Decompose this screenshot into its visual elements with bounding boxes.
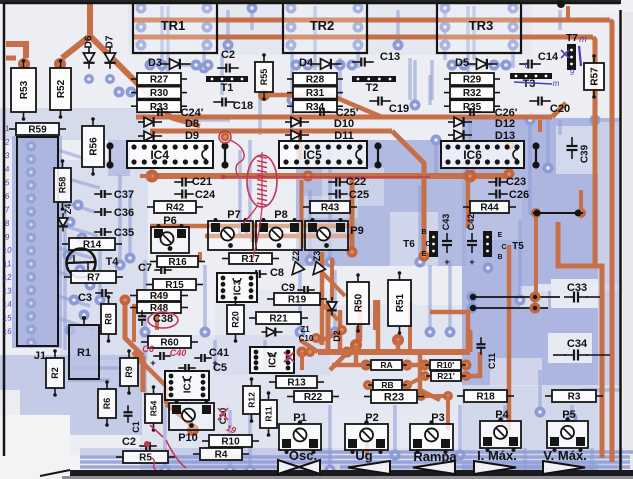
svg-text:R1: R1 [77, 347, 91, 359]
svg-text:C8: C8 [270, 267, 284, 279]
svg-text:R20: R20 [231, 311, 241, 328]
svg-text:R52: R52 [56, 79, 67, 98]
svg-text:C33: C33 [567, 282, 587, 294]
svg-text:C41: C41 [209, 347, 229, 359]
svg-text:C36: C36 [114, 207, 134, 219]
svg-text:D7: D7 [105, 35, 116, 48]
svg-text:R28: R28 [306, 75, 325, 86]
svg-text:T5: T5 [512, 241, 524, 252]
svg-text:T4: T4 [106, 256, 120, 268]
svg-text:P7: P7 [227, 209, 240, 221]
svg-text:Ug: Ug [355, 448, 372, 463]
svg-text:16: 16 [2, 327, 13, 337]
svg-text:B: B [497, 254, 502, 261]
svg-text:R56: R56 [89, 137, 100, 156]
svg-text:C5: C5 [213, 362, 227, 374]
svg-text:R44: R44 [480, 203, 499, 214]
svg-text:D4: D4 [299, 57, 314, 69]
svg-text:R59: R59 [28, 125, 47, 136]
svg-text:R60: R60 [160, 338, 179, 349]
svg-text:R32: R32 [463, 88, 482, 99]
svg-text:R3: R3 [568, 392, 581, 403]
svg-text:C22: C22 [346, 176, 366, 188]
svg-text:E: E [422, 251, 427, 258]
svg-text:IC6: IC6 [463, 148, 482, 162]
svg-text:R49: R49 [150, 291, 169, 302]
svg-text:C37: C37 [114, 189, 134, 201]
svg-text:D5: D5 [455, 57, 469, 69]
svg-text:14: 14 [2, 300, 13, 310]
svg-text:D2: D2 [332, 330, 342, 342]
svg-text:TR1: TR1 [161, 18, 186, 33]
svg-text:C26: C26 [509, 189, 529, 201]
svg-text:R31: R31 [306, 88, 325, 99]
svg-text:R21': R21' [437, 371, 455, 381]
svg-text:R51: R51 [395, 293, 406, 312]
svg-text:R10: R10 [221, 437, 240, 448]
svg-text:I. Máx.: I. Máx. [477, 448, 517, 463]
svg-text:C18: C18 [233, 100, 253, 112]
svg-text:R12: R12 [247, 392, 257, 408]
svg-text:m: m [553, 79, 560, 88]
svg-text:R29: R29 [463, 75, 482, 86]
svg-text:TR3: TR3 [469, 18, 494, 33]
svg-text:R50: R50 [354, 293, 365, 312]
svg-text:R8: R8 [104, 313, 114, 325]
svg-text:12: 12 [2, 272, 13, 282]
svg-text:R34: R34 [306, 102, 325, 113]
svg-text:C2: C2 [122, 436, 136, 448]
svg-text:C: C [501, 244, 506, 251]
svg-text:R27: R27 [150, 75, 169, 86]
svg-text:R21: R21 [269, 314, 288, 325]
svg-text:R10': R10' [437, 360, 455, 370]
svg-text:R54: R54 [149, 400, 159, 416]
svg-text:9: 9 [570, 68, 575, 77]
svg-text:D6: D6 [84, 35, 95, 48]
svg-text:C20: C20 [550, 103, 570, 115]
svg-text:R57: R57 [590, 67, 601, 86]
svg-text:C2: C2 [221, 49, 235, 61]
svg-text:Osc.: Osc. [289, 448, 317, 463]
svg-text:E: E [498, 232, 503, 239]
svg-text:C35: C35 [114, 227, 134, 239]
svg-text:10: 10 [2, 245, 13, 255]
svg-text:C39: C39 [580, 144, 591, 163]
svg-text:R19: R19 [288, 295, 307, 306]
svg-text:R11: R11 [264, 406, 274, 421]
svg-text:R58: R58 [58, 177, 68, 194]
svg-text:RA: RA [380, 360, 392, 370]
svg-text:R9: R9 [124, 366, 134, 378]
svg-text:R30: R30 [150, 88, 169, 99]
svg-text:T1: T1 [221, 82, 234, 94]
svg-text:6: 6 [525, 61, 530, 70]
svg-text:+: + [150, 358, 155, 368]
svg-text:C1: C1 [131, 421, 141, 433]
svg-text:IC4: IC4 [150, 148, 169, 162]
svg-text:T3: T3 [523, 78, 536, 90]
svg-text:R5: R5 [139, 453, 152, 464]
svg-text:13: 13 [2, 286, 13, 296]
svg-text:R16: R16 [168, 257, 187, 268]
svg-text:V. Máx.: V. Máx. [543, 448, 587, 463]
svg-text:C24: C24 [195, 189, 216, 201]
svg-text:C13: C13 [380, 51, 400, 63]
svg-text:Z2: Z2 [291, 251, 301, 262]
svg-text:C43: C43 [441, 214, 451, 231]
svg-text:C6: C6 [142, 344, 154, 354]
svg-text:C38: C38 [153, 313, 173, 325]
svg-text:B: B [421, 229, 426, 236]
svg-text:R17: R17 [241, 254, 260, 265]
svg-text:IC5: IC5 [303, 148, 322, 162]
svg-text:P8: P8 [274, 209, 287, 221]
svg-text:P9: P9 [350, 225, 363, 237]
svg-text:R6: R6 [102, 398, 112, 410]
svg-text:C34: C34 [567, 338, 588, 350]
svg-text:R42: R42 [166, 203, 185, 214]
svg-text:R23: R23 [384, 391, 404, 403]
svg-text:C3: C3 [78, 292, 92, 304]
svg-text:R2: R2 [50, 367, 60, 379]
svg-text:D10: D10 [334, 118, 354, 130]
svg-text:R4: R4 [215, 450, 228, 461]
svg-text:+: + [444, 257, 449, 267]
svg-text:P6: P6 [163, 215, 176, 227]
svg-text:C10: C10 [299, 334, 314, 343]
svg-text:T7: T7 [566, 33, 578, 44]
svg-text:D8: D8 [185, 118, 199, 130]
svg-text:D3: D3 [148, 57, 162, 69]
svg-text:R53: R53 [19, 80, 30, 99]
svg-text:J1: J1 [34, 350, 46, 362]
svg-text:Z1: Z1 [300, 325, 310, 334]
svg-text:R18: R18 [476, 392, 495, 403]
svg-text:T2: T2 [366, 82, 379, 94]
svg-text:T6: T6 [403, 239, 415, 250]
svg-text:D12: D12 [495, 118, 515, 130]
svg-text:C11: C11 [487, 353, 497, 369]
svg-text:RB: RB [381, 380, 393, 390]
svg-text:R35: R35 [463, 102, 482, 113]
svg-text:R13: R13 [287, 378, 306, 389]
svg-text:R22: R22 [304, 392, 323, 403]
svg-text:+: + [469, 257, 474, 267]
svg-text:C42: C42 [466, 214, 476, 231]
svg-text:m: m [579, 34, 587, 44]
svg-text:C14: C14 [538, 51, 559, 63]
svg-text:Z4: Z4 [63, 204, 73, 215]
svg-text:C19: C19 [389, 103, 409, 115]
svg-text:P10: P10 [178, 432, 198, 444]
svg-text:R43: R43 [321, 203, 340, 214]
svg-text:R7: R7 [87, 273, 100, 284]
svg-text:11: 11 [2, 259, 11, 269]
svg-text:C40: C40 [170, 348, 187, 358]
svg-text:C7: C7 [138, 262, 152, 274]
svg-text:15: 15 [2, 313, 13, 323]
svg-text:C21: C21 [192, 176, 212, 188]
svg-text:TR2: TR2 [310, 18, 335, 33]
svg-text:R55: R55 [259, 69, 269, 86]
svg-text:C25: C25 [349, 189, 369, 201]
svg-text:Z3: Z3 [312, 251, 322, 262]
svg-text:C23: C23 [506, 176, 526, 188]
